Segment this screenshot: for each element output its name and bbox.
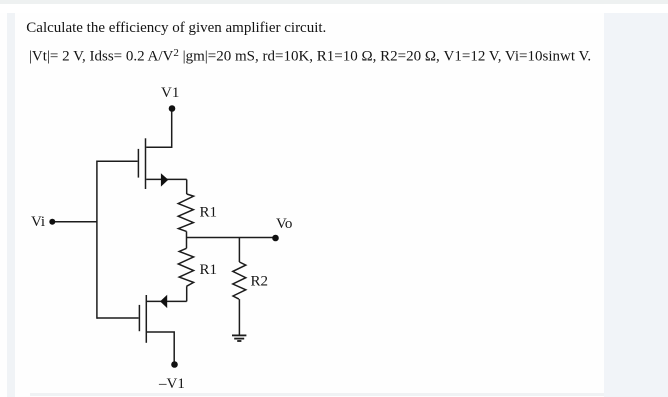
wire R1 top to node	[186, 231, 188, 237]
svg-text:R1: R1	[200, 262, 218, 278]
wire Q1 source	[146, 178, 187, 180]
wire Vi input	[54, 221, 97, 223]
resistor R1 bottom	[178, 248, 193, 286]
transistor Q2 gate bar	[138, 305, 140, 331]
wire gate bus	[96, 161, 98, 319]
transistor Q1 source arrow	[161, 173, 168, 186]
wire Q1 source to R1	[186, 179, 188, 194]
wire V1 to Q1 drain	[146, 112, 172, 148]
transistor Q2 drain arrow	[160, 295, 167, 308]
ground	[232, 335, 246, 341]
svg-text:R2: R2	[251, 274, 269, 290]
svg-text:V1: V1	[161, 85, 179, 101]
svg-text:R1: R1	[200, 205, 218, 221]
wire R2 to ground	[238, 299, 240, 335]
transistor Q1 gate bar	[137, 149, 139, 178]
wire node to R1 bottom	[186, 238, 188, 249]
resistor R1 top	[178, 194, 193, 231]
node Vi dot	[49, 219, 55, 225]
wire R1 bottom to Q2 drain	[186, 286, 188, 301]
node Vo dot	[272, 235, 279, 242]
node V1 supply dot	[169, 105, 176, 112]
svg-text:–V1: –V1	[158, 376, 185, 392]
wire Q1 gate	[97, 160, 138, 162]
svg-text:Vo: Vo	[276, 216, 292, 232]
wire node to R2	[238, 238, 240, 263]
wire Q2 gate	[97, 317, 139, 319]
wire output node	[187, 237, 276, 239]
transistor Q2 channel	[145, 295, 147, 343]
wire Q2 source	[147, 332, 174, 362]
resistor R2	[233, 262, 246, 299]
wire Q2 drain	[147, 300, 187, 302]
node -V1 supply dot	[171, 361, 178, 368]
svg-text:Vi: Vi	[31, 214, 45, 230]
transistor Q1 channel	[145, 138, 147, 189]
